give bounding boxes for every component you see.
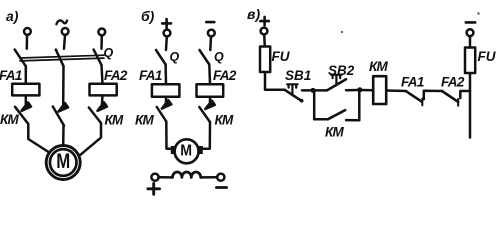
contact KM right arrow (205, 101, 215, 109)
svg-text:КМ: КМ (215, 113, 234, 128)
svg-text:FA1: FA1 (139, 68, 162, 83)
svg-text:КМ: КМ (0, 112, 19, 127)
branch down-right wire (358, 90, 361, 120)
wire Q right to fuse (208, 65, 211, 85)
svg-text:FU: FU (478, 49, 497, 64)
wire SB2 to junction 2 (346, 89, 360, 92)
contact KM pole3 arrow (98, 102, 108, 110)
fuse FU left (260, 47, 270, 73)
minus label under winding (216, 186, 226, 189)
wire stem (263, 34, 266, 46)
switch Q pole 1 blade (15, 50, 26, 67)
plus sign (162, 19, 171, 28)
wire coil to FA1 (386, 89, 406, 92)
wire pole1 to fuse (25, 66, 28, 84)
wire pole3 to motor (80, 123, 101, 155)
fuse FU right (465, 48, 475, 74)
plus label under winding (148, 183, 160, 194)
excitation coil LM (173, 172, 201, 177)
button SB1 plunger (287, 84, 297, 95)
terminal L2 (62, 28, 69, 35)
wire fuse FA1 down (165, 97, 168, 104)
svg-text:Q: Q (214, 50, 224, 64)
contact KM left arrow (162, 100, 172, 108)
brush right (198, 146, 202, 154)
contact SB1 blade end blob (300, 99, 304, 103)
svg-text:Q: Q (170, 50, 180, 64)
right vertical wire (469, 73, 472, 138)
fuse FA1 (12, 84, 39, 96)
svg-text:в): в) (247, 6, 260, 22)
svg-text:КМ: КМ (369, 59, 388, 74)
svg-text:КМ: КМ (105, 113, 124, 128)
contact SB1 blade (285, 90, 303, 102)
wire L3 stem (100, 36, 103, 49)
svg-text:FA2: FA2 (104, 68, 128, 83)
switch Q pole 3 blade (94, 50, 102, 66)
contact FA2 stop (460, 91, 470, 98)
paper speck 1 (341, 31, 343, 33)
branch wire down (313, 90, 316, 119)
switch Q linkage bar (20, 55, 104, 61)
AC tilde label (57, 20, 68, 24)
contact KM pole1 arrow (22, 102, 32, 110)
terminal plus (164, 30, 171, 37)
paper speck 2 (477, 12, 479, 14)
svg-text:М: М (56, 150, 70, 173)
junction node 1 (311, 88, 316, 93)
wire to left brush (166, 122, 171, 149)
svg-text:FA2: FA2 (441, 75, 465, 90)
wire pole2 down (62, 66, 65, 104)
terminal minus (208, 30, 215, 37)
motor M2 circle (175, 139, 199, 163)
wire pole3 to fuse (102, 65, 103, 84)
minus sign (466, 21, 475, 24)
svg-text:а): а) (6, 8, 19, 24)
contact KM aux blade (328, 110, 346, 119)
terminal L1 (24, 28, 31, 35)
svg-text:КМ: КМ (135, 113, 154, 128)
junction node 2 (357, 87, 362, 92)
plus sign (260, 17, 268, 25)
wire fuse down and right (265, 72, 285, 90)
branch lower wire left (314, 118, 328, 121)
button SB2 plunger (331, 75, 341, 86)
svg-text:FA1: FA1 (401, 75, 424, 90)
wire pole2 to motor (62, 126, 65, 146)
wire L2 stem (64, 35, 65, 49)
contact FA2 tick (457, 99, 459, 106)
minus sign (206, 21, 214, 24)
motor M1 outer circle (46, 146, 80, 180)
switch Q left blade (156, 50, 166, 65)
contact FA1 blade (406, 91, 422, 102)
excitation winding left terminal (151, 174, 158, 181)
wire stem minus (209, 37, 212, 51)
svg-text:Q: Q (104, 46, 114, 60)
wire stem minus (469, 37, 472, 48)
wire terminal to coil (159, 176, 173, 179)
contact KM left blade (157, 107, 167, 122)
brush left (171, 146, 175, 154)
contact FA1 tick (421, 99, 423, 106)
wire fuse FA2 down (209, 97, 212, 104)
terminal plus (261, 28, 268, 35)
wire coil to right terminal (201, 176, 218, 179)
wire to right brush (203, 122, 210, 149)
contact FA1 stop (424, 91, 442, 99)
svg-text:М: М (180, 143, 192, 160)
svg-text:SB1: SB1 (285, 68, 311, 83)
wire junction2 to coil (360, 89, 373, 92)
wire fuse FA2 to contact (101, 95, 104, 104)
contact KM pole2 blade (53, 107, 64, 126)
contact KM pole2 arrow (59, 103, 69, 111)
wire L1 stem (26, 35, 29, 49)
switch Q right blade (200, 50, 210, 65)
fuse FA2 (197, 84, 224, 97)
wire pole1 to motor (28, 124, 50, 153)
terminal L3 (98, 29, 105, 36)
svg-text:FA1: FA1 (0, 68, 22, 83)
contact KM pole1 blade (15, 107, 28, 124)
branch lower wire right (346, 119, 359, 122)
coil KM (373, 76, 386, 104)
excitation right terminal (217, 174, 224, 181)
contact SB2 blade (327, 79, 346, 90)
wire Q left to fuse (164, 65, 167, 85)
contact KM right blade (199, 107, 210, 122)
svg-text:FU: FU (272, 49, 291, 64)
wire SB1 to junction (302, 89, 327, 92)
terminal minus (467, 29, 474, 36)
wire fuse FA1 to contact (25, 95, 28, 104)
fuse FA2 (90, 84, 117, 96)
wire stem plus (165, 37, 168, 51)
svg-text:FA2: FA2 (213, 68, 237, 83)
contact KM pole3 blade (89, 108, 101, 124)
svg-text:КМ: КМ (325, 125, 344, 140)
switch Q pole 2 blade (56, 50, 64, 67)
motor M1 inner circle (50, 149, 77, 176)
contact FA2 blade (442, 91, 458, 102)
svg-text:б): б) (141, 8, 155, 24)
fuse FA1 (152, 84, 180, 97)
